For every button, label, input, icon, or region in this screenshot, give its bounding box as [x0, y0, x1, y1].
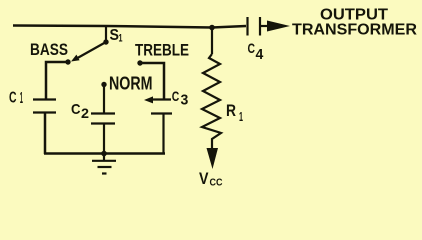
label C4: [248, 40, 264, 63]
svg-text:C: C: [248, 40, 256, 56]
wire top bus: [13, 26, 246, 28]
capacitor C1: [33, 100, 56, 113]
svg-text:2: 2: [81, 105, 89, 121]
node NORM: [101, 82, 106, 87]
svg-text:C: C: [71, 101, 81, 118]
svg-text:C: C: [172, 88, 180, 104]
wire R1 top lead: [211, 27, 213, 54]
svg-text:BASS: BASS: [30, 40, 68, 59]
junction ground node: [101, 151, 107, 157]
wire C3 bottom lead: [162, 114, 164, 155]
wire C2 bottom lead: [103, 124, 105, 155]
junction R1 node: [209, 25, 215, 31]
svg-text:1: 1: [239, 109, 243, 124]
capacitor C4: [248, 17, 261, 36]
svg-text:TREBLE: TREBLE: [135, 41, 189, 60]
svg-text:C: C: [9, 90, 17, 107]
wire TREBLE contact to C3: [140, 63, 164, 99]
svg-text:V: V: [199, 170, 209, 188]
label C1: [9, 90, 23, 108]
svg-text:R: R: [226, 102, 236, 120]
wire C1 bottom lead: [44, 113, 47, 155]
label Vcc: [199, 170, 223, 189]
svg-text:1: 1: [119, 33, 123, 45]
node BASS contact: [65, 59, 70, 64]
label R1: [226, 102, 243, 124]
node TREBLE contact: [137, 60, 142, 65]
wire C4 to arrow: [261, 25, 270, 27]
wire C2 top lead: [103, 85, 105, 114]
capacitor C2: [91, 114, 115, 124]
svg-text:3: 3: [181, 92, 189, 109]
svg-text:4: 4: [256, 46, 264, 63]
resistor R1: [202, 54, 221, 149]
arrow Vcc: [207, 148, 219, 169]
capacitor C3: [144, 96, 172, 113]
svg-text:CC: CC: [210, 177, 223, 189]
ground: [92, 154, 116, 174]
switch S1: [71, 26, 109, 62]
wire bottom bus: [44, 152, 165, 155]
wire BASS contact to C1: [46, 62, 68, 99]
svg-text:1: 1: [20, 90, 23, 107]
label C3: [172, 88, 189, 109]
label C2: [71, 101, 89, 121]
svg-text:NORM: NORM: [109, 74, 153, 94]
arrow to output transformer: [267, 21, 290, 32]
svg-text:TRANSFORMER: TRANSFORMER: [292, 22, 417, 39]
